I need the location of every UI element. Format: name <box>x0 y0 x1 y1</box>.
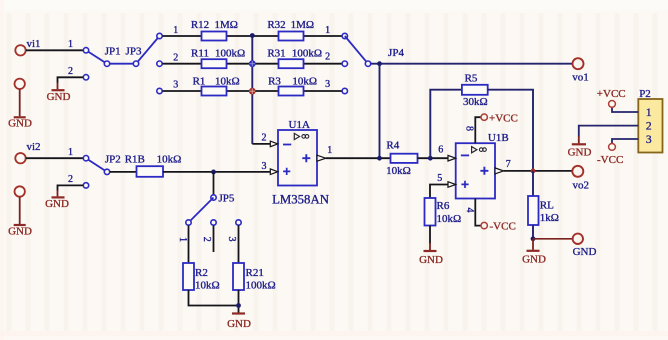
ground under JP1 pin2 <box>47 90 71 103</box>
junction top row <box>250 33 255 38</box>
wire P2 pin2 to GND <box>579 126 639 137</box>
svg-text:GND: GND <box>573 246 597 258</box>
resistor R2 <box>183 263 220 292</box>
wire RL bottom <box>532 225 534 239</box>
wire JP5 pin3 to R21 <box>238 226 240 264</box>
jumper JP3 <box>126 25 179 94</box>
svg-text:P2: P2 <box>639 88 651 100</box>
svg-text:5: 5 <box>437 173 442 184</box>
svg-text:1: 1 <box>68 147 73 158</box>
svg-text:JP1: JP1 <box>105 45 121 57</box>
wire JP2 pin2 to GND <box>58 174 84 196</box>
ground under R6 <box>419 251 443 266</box>
svg-text:R32: R32 <box>267 19 285 31</box>
svg-text:JP4: JP4 <box>388 47 404 59</box>
resistor R4 <box>386 140 417 178</box>
wire U1A output to R4 <box>326 145 391 158</box>
junction R4/R5 <box>428 156 433 161</box>
power port +VCC (P2) <box>597 88 626 107</box>
power port -VCC (P2) <box>597 144 623 166</box>
svg-text:10kΩ: 10kΩ <box>215 75 240 87</box>
jumper JP2 <box>83 153 120 188</box>
svg-text:3: 3 <box>226 237 237 242</box>
svg-text:R2: R2 <box>195 267 208 279</box>
ground under R2/R21 <box>227 314 251 331</box>
port vi2 <box>15 141 40 163</box>
svg-text:2: 2 <box>262 133 267 144</box>
svg-text:3: 3 <box>646 134 652 146</box>
junction JP4 <box>377 61 382 66</box>
svg-text:GND: GND <box>522 253 546 265</box>
wire R6 to U1B pin5 <box>430 173 448 198</box>
port vo2 <box>572 166 589 192</box>
svg-text:vo2: vo2 <box>573 179 590 191</box>
svg-text:LM358AN: LM358AN <box>272 193 329 207</box>
svg-text:1: 1 <box>68 39 73 50</box>
svg-text:vi1: vi1 <box>27 38 41 50</box>
wire U1B pin8 to +VCC <box>464 117 482 143</box>
junction bottom row (red ring) <box>249 88 256 95</box>
svg-text:2: 2 <box>201 237 212 242</box>
connector P2 <box>638 88 662 153</box>
svg-text:3: 3 <box>325 79 330 90</box>
svg-text:1MΩ: 1MΩ <box>291 19 314 31</box>
junction U1B output (red) <box>531 169 536 174</box>
svg-text:GND: GND <box>47 91 71 103</box>
power port -VCC (U1B) <box>481 220 516 232</box>
svg-text:8: 8 <box>464 126 475 131</box>
svg-text:2: 2 <box>646 121 652 133</box>
junction R1B/JP5 <box>211 170 216 175</box>
port GND (right of RL) <box>573 234 597 258</box>
port GND (left, lower) <box>8 186 32 237</box>
svg-text:GND: GND <box>227 318 251 330</box>
svg-text:GND: GND <box>419 254 443 266</box>
wire output junction to RL <box>532 171 534 196</box>
wire center column <box>251 36 253 144</box>
svg-text:U1A: U1A <box>289 119 310 131</box>
svg-text:JP5: JP5 <box>219 193 235 205</box>
svg-text:U1B: U1B <box>488 132 509 144</box>
wire R5 right leg <box>488 90 533 171</box>
svg-text:30kΩ: 30kΩ <box>463 96 488 108</box>
svg-text:JP2: JP2 <box>105 153 121 165</box>
wire P2 pin3 to -VCC <box>612 139 638 143</box>
svg-text:R6: R6 <box>437 200 450 212</box>
svg-text:1: 1 <box>177 237 188 242</box>
wire R6 to GND <box>429 226 431 244</box>
svg-text:R1: R1 <box>193 75 206 87</box>
svg-text:R31: R31 <box>267 47 285 59</box>
wire vi2 to JP2 pin1 <box>26 147 84 158</box>
resistor R3 <box>268 75 317 95</box>
ground P2 pin2 <box>568 144 592 158</box>
jumper JP4 <box>325 25 404 94</box>
junction middle row (blue ring) <box>249 60 256 67</box>
resistor R12 <box>191 19 238 41</box>
svg-text:4: 4 <box>464 208 475 213</box>
resistor R31 <box>267 47 322 68</box>
svg-text:GND: GND <box>8 225 32 237</box>
resistor R1B <box>125 153 182 177</box>
svg-text:R1B: R1B <box>125 153 145 165</box>
wire JP4 to vo1 <box>371 63 572 65</box>
svg-text:3: 3 <box>262 161 267 172</box>
junction R2/R21 <box>236 303 241 308</box>
svg-text:R21: R21 <box>246 267 264 279</box>
svg-text:vo1: vo1 <box>572 72 589 84</box>
svg-text:6: 6 <box>438 145 443 156</box>
svg-text:1: 1 <box>173 25 178 36</box>
wire center column to U1A pin2 <box>252 133 270 144</box>
wire R4 to U1B pin6 <box>418 145 449 159</box>
resistor network row wires (left) <box>163 36 342 91</box>
svg-text:R5: R5 <box>465 73 478 85</box>
jumper JP1 <box>83 45 120 80</box>
svg-text:2: 2 <box>68 174 73 185</box>
svg-text:JP3: JP3 <box>126 45 142 57</box>
svg-text:R3: R3 <box>268 75 281 87</box>
wire R5 left leg <box>430 90 462 159</box>
svg-text:100kΩ: 100kΩ <box>215 47 245 59</box>
svg-text:GND: GND <box>8 118 32 130</box>
svg-text:10kΩ: 10kΩ <box>157 153 182 165</box>
resistor R32 <box>267 19 314 41</box>
svg-text:GND: GND <box>45 198 69 210</box>
wire P2 pin1 to +VCC <box>612 108 638 113</box>
svg-text:vi2: vi2 <box>27 141 41 153</box>
resistor R5 <box>462 73 488 109</box>
op-amp U1A <box>270 119 329 207</box>
svg-text:1kΩ: 1kΩ <box>540 212 559 224</box>
wire JP4 junction down to U1A output <box>379 64 381 159</box>
svg-text:100kΩ: 100kΩ <box>246 280 276 292</box>
resistor R1 <box>193 75 240 95</box>
svg-text:100kΩ: 100kΩ <box>292 47 322 59</box>
port GND (left, upper) <box>8 79 32 130</box>
svg-text:-VCC: -VCC <box>597 154 623 166</box>
resistor RL <box>528 196 559 225</box>
junction U1A output <box>377 156 382 161</box>
svg-text:1MΩ: 1MΩ <box>214 19 237 31</box>
jumper JP5 <box>177 172 241 252</box>
resistor R11 <box>191 47 245 68</box>
wire JP2 to R1B <box>110 171 137 173</box>
svg-text:1: 1 <box>327 145 332 156</box>
wire R2/R21 bottoms to GND <box>189 290 239 313</box>
wire JP1 pin2 to GND <box>58 66 84 89</box>
ground under JP2 pin2 <box>45 197 69 210</box>
svg-text:10kΩ: 10kΩ <box>437 213 462 225</box>
port vi1 <box>15 38 40 56</box>
wire vi1 to JP1 pin1 <box>26 39 84 50</box>
svg-text:R11: R11 <box>191 47 209 59</box>
svg-text:1: 1 <box>325 25 330 36</box>
svg-text:+VCC: +VCC <box>597 88 626 100</box>
svg-text:-VCC: -VCC <box>490 220 516 232</box>
wire U1B output to vo2 <box>504 159 573 171</box>
op-amp U1B <box>448 132 509 199</box>
svg-text:2: 2 <box>173 52 178 63</box>
resistor R6 <box>425 198 462 226</box>
svg-text:10kΩ: 10kΩ <box>292 75 317 87</box>
wire JP5 pin1 to R2 <box>188 226 190 264</box>
wire junction to GND port <box>533 238 573 240</box>
svg-text:R4: R4 <box>386 140 399 152</box>
svg-text:10kΩ: 10kΩ <box>195 280 220 292</box>
wire U1B pin4 to -VCC <box>464 199 481 226</box>
svg-text:R12: R12 <box>191 19 209 31</box>
svg-text:RL: RL <box>540 199 554 211</box>
port vo1 <box>572 58 589 83</box>
wire R1B to U1A pin3 <box>163 161 271 172</box>
svg-text:2: 2 <box>68 66 73 77</box>
wire JP1 to JP3 <box>110 63 133 65</box>
svg-text:10kΩ: 10kΩ <box>386 165 411 177</box>
resistor R21 <box>233 263 276 292</box>
svg-text:GND: GND <box>568 146 592 158</box>
ground under RL junction <box>522 239 546 265</box>
svg-text:+VCC: +VCC <box>489 112 518 124</box>
power port +VCC (U1B) <box>481 112 518 124</box>
junction RL bottom <box>531 236 536 241</box>
svg-text:2: 2 <box>325 52 330 63</box>
svg-text:7: 7 <box>506 159 511 170</box>
svg-text:1: 1 <box>646 107 652 119</box>
svg-text:3: 3 <box>173 80 178 91</box>
